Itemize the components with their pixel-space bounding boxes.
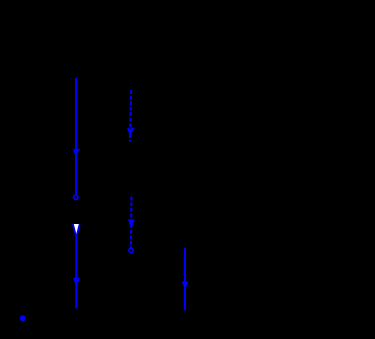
wire: solid vertical trajectory segment E (x=185)	[184, 248, 186, 311]
arrowhead on wire E (mid-line, pointing down)	[182, 281, 188, 290]
arrowhead on wire A (mid-line, pointing down)	[73, 149, 80, 158]
arrowhead on dashed wire C (pointing down)	[127, 128, 135, 138]
node: filled dot (stable point, lower left)	[20, 315, 26, 321]
node: open circle terminal of wire A	[74, 195, 78, 199]
arrowhead on dashed wire D (mid-line, pointing down)	[128, 219, 134, 229]
wire: solid vertical trajectory segment B (x=76, bottom)	[75, 235, 77, 309]
wire: dashed trajectory segment C (x=131, top)	[130, 90, 131, 142]
arrowhead on wire B (mid-line, pointing down)	[73, 277, 79, 287]
arrowhead: hollow white-faced start arrow of wire B	[73, 224, 80, 236]
node: open circle terminal of wire D	[129, 248, 133, 252]
wire: dashed trajectory segment D (x=131, middle)	[130, 197, 132, 248]
wire: solid vertical trajectory segment A (x=76, top)	[75, 78, 77, 196]
